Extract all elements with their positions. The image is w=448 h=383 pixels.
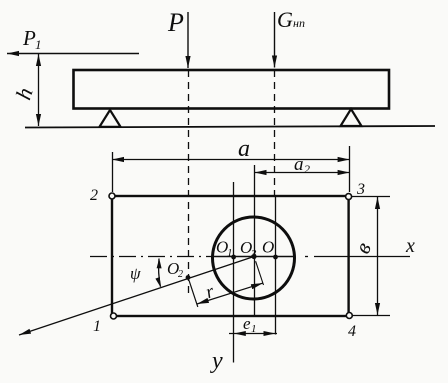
psi arc top arrowhead: [157, 258, 162, 268]
svg-text:4: 4: [348, 323, 356, 340]
O2 dot: [186, 275, 191, 280]
svg-text:a: a: [294, 154, 304, 175]
dimension a extension line right (above corner 3): [349, 146, 351, 192]
svg-text:2: 2: [90, 187, 98, 204]
e1 right arrow: [264, 331, 276, 336]
svg-text:3: 3: [356, 181, 365, 198]
b dimension line: [377, 197, 379, 315]
dashed line of action below P: [188, 70, 190, 293]
y axis line through O1: [233, 182, 235, 363]
svg-text:нп: нп: [293, 16, 305, 30]
b dimension extension bottom (from corner 4): [350, 315, 390, 317]
vertical line through O3: [254, 165, 256, 316]
ground line: [25, 126, 435, 128]
svg-text:G: G: [277, 7, 293, 32]
r dimension extension from O2: [189, 280, 198, 307]
svg-text:ψ: ψ: [130, 264, 141, 283]
corner 2 circle: [109, 193, 115, 199]
svg-text:1: 1: [251, 323, 257, 335]
force P arrow: [187, 12, 189, 68]
svg-text:P: P: [22, 26, 36, 50]
psi arc: [159, 259, 161, 287]
svg-text:a: a: [238, 136, 250, 162]
x axis solid part through circle: [213, 256, 294, 258]
dimension a extension line left (above corner 2): [112, 152, 114, 192]
x axis dot right of circle: [305, 256, 308, 258]
corner 3 circle: [346, 194, 352, 200]
dimension a2 line: [255, 172, 350, 174]
b dimension extension top (from corner 3): [350, 196, 390, 198]
svg-text:P: P: [167, 8, 184, 37]
svg-text:2: 2: [304, 162, 310, 176]
load circle: [213, 217, 295, 299]
dimension h: [38, 54, 40, 126]
left support: [100, 110, 121, 127]
force P1 line with arrow: [7, 53, 139, 55]
vertical line through O down to e1: [275, 196, 277, 335]
svg-text:2: 2: [178, 269, 183, 280]
r dimension extension from O3: [256, 261, 264, 285]
right support: [341, 109, 362, 126]
x axis left dash-dot part: [90, 256, 213, 258]
dashed line of action below G: [274, 70, 276, 196]
beam: [74, 70, 390, 109]
svg-text:e: e: [243, 314, 251, 333]
O1 dot: [231, 255, 236, 260]
e1 left arrow: [234, 331, 246, 336]
svg-text:1: 1: [35, 37, 42, 52]
dimension a line: [112, 159, 350, 161]
svg-text:y: y: [210, 348, 223, 374]
diagonal line through O2 to O3: [19, 257, 254, 336]
svg-text:1: 1: [227, 247, 233, 259]
O3 dot: [251, 254, 256, 259]
svg-text:1: 1: [93, 318, 101, 335]
svg-text:O: O: [262, 238, 274, 257]
corner 1 circle: [111, 313, 117, 319]
svg-text:3: 3: [250, 248, 257, 260]
O dot: [273, 255, 278, 260]
corner 4 circle: [346, 313, 352, 319]
svg-text:x: x: [405, 235, 415, 257]
psi arc bottom arrowhead: [155, 277, 160, 287]
e1 dimension line: [229, 333, 277, 335]
force G arrow: [274, 12, 276, 68]
r dimension line: [197, 283, 263, 304]
plan rectangle (foundation plate): [112, 196, 349, 316]
x axis right solid part: [314, 256, 410, 258]
